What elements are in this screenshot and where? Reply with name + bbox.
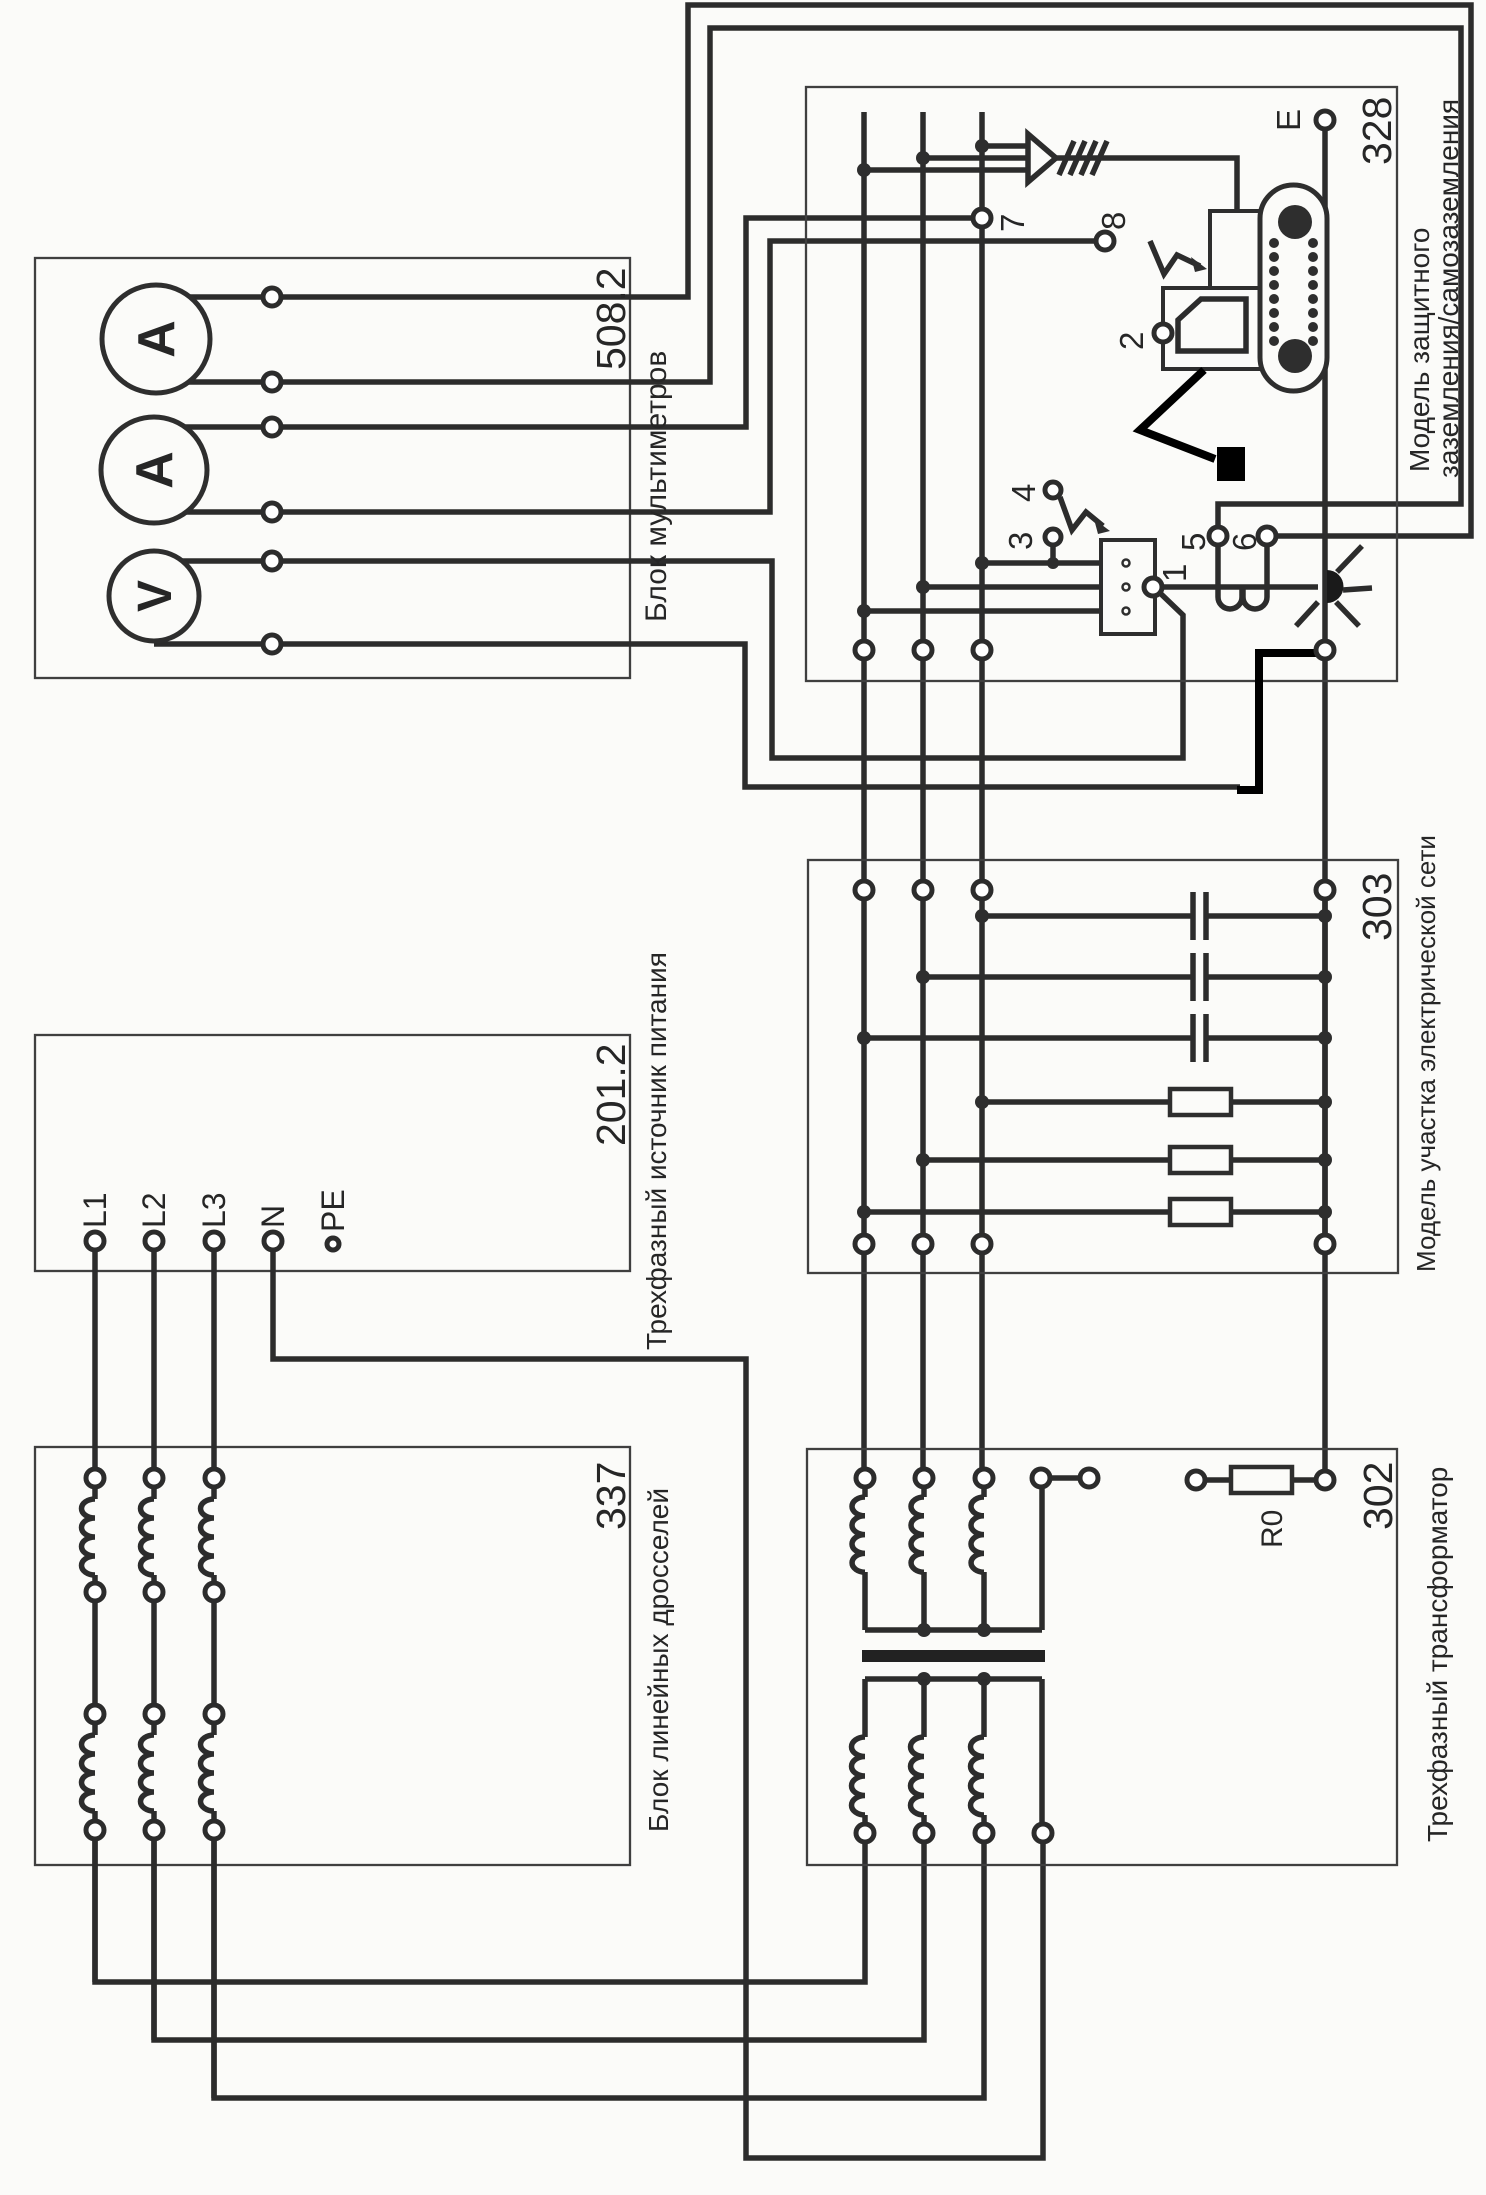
- svg-text:A: A: [126, 451, 184, 489]
- terminal A1-: [263, 373, 281, 391]
- choke terminals column L3: [205, 1469, 223, 1839]
- svg-text:N: N: [255, 1205, 291, 1228]
- wire from earth symbol to machine frame: [1056, 158, 1237, 211]
- terminal 1: [1144, 578, 1162, 596]
- wire phase b between blocks 328 303 302: [920, 650, 926, 1478]
- secondary winding c: [971, 1679, 984, 1833]
- label L1: [77, 1192, 113, 1228]
- terminals secondary bottom: [856, 1824, 1052, 1842]
- caption network section model: [1411, 835, 1441, 1272]
- wire earth bus E down right side: [1322, 129, 1328, 1471]
- svg-text:заземления/самозаземления: заземления/самозаземления: [1433, 99, 1464, 478]
- junction dots on phases for switch rows: [857, 556, 989, 618]
- terminal L2 source: [145, 1232, 163, 1250]
- black marker jumper V- to earth terminal: [1237, 653, 1316, 790]
- wire terminal 3 stub to line: [1050, 545, 1056, 563]
- machine housing lower box: [1163, 288, 1262, 369]
- label L3: [196, 1192, 232, 1228]
- caption three-phase power source: [641, 952, 672, 1350]
- svg-text:Блок мультиметров: Блок мультиметров: [640, 351, 673, 622]
- wire A1+ to terminal 6 outer frame loop: [272, 5, 1471, 536]
- inductor L2b: [141, 1735, 155, 1811]
- caption protective earthing model line 2: [1433, 99, 1464, 478]
- lightning arrow from terminal 4 to switch: [1060, 497, 1110, 534]
- lightning arrow from terminal 8 to machine: [1150, 241, 1207, 274]
- label 201.2: [588, 1043, 634, 1146]
- person touching machine thick zigzag: [1140, 370, 1215, 459]
- svg-text:5: 5: [1175, 533, 1212, 551]
- wire phase b inside 328: [920, 112, 926, 650]
- wire V- toward earth terminal: [272, 644, 1240, 787]
- wire phase a inside 303: [861, 890, 867, 1244]
- block 302 three-phase transformer border: [807, 1449, 1397, 1865]
- caption three-phase transformer: [1422, 1467, 1453, 1842]
- inductor L1a: [82, 1499, 96, 1575]
- block 303 network section model border: [808, 860, 1398, 1273]
- label terminal 8: [1095, 212, 1132, 230]
- label PE: [315, 1189, 351, 1232]
- label terminal 5: [1175, 533, 1212, 551]
- machine housing upper box: [1210, 211, 1262, 288]
- wire phase c inside 303: [979, 890, 985, 1244]
- svg-text:6: 6: [1226, 533, 1263, 551]
- secondary star bus: [865, 1672, 1042, 1686]
- wire L2 from chokes to transformer: [154, 1830, 924, 2040]
- choke terminals column L1: [86, 1469, 104, 1839]
- terminal 8: [1096, 232, 1114, 250]
- svg-text:7: 7: [994, 214, 1031, 232]
- label R0: [1256, 1510, 1289, 1548]
- resistor R3 branch: [857, 1199, 1332, 1225]
- capacitor C2 branch: [916, 953, 1332, 1001]
- switch box: [1101, 540, 1155, 634]
- svg-text:2: 2: [1113, 332, 1150, 350]
- terminal E top: [1316, 111, 1334, 129]
- terminal phase a bottom of 328: [855, 641, 873, 659]
- svg-text:303: 303: [1354, 873, 1400, 941]
- label N: [255, 1205, 291, 1228]
- svg-text:Блок линейных дросселей: Блок линейных дросселей: [643, 1488, 674, 1832]
- svg-text:L1: L1: [77, 1192, 113, 1228]
- terminal earth at block bottom: [1316, 641, 1334, 659]
- label terminal 1: [1156, 564, 1193, 582]
- label L2: [136, 1192, 172, 1228]
- caption line chokes block: [643, 1488, 674, 1832]
- capacitor C1 branch: [975, 892, 1332, 940]
- block 508.2 multimeter block border: [35, 258, 630, 678]
- wire phase a inside 328: [861, 112, 867, 650]
- wire L3 choke chain: [211, 1241, 217, 2098]
- removable link double loop: [1218, 587, 1267, 609]
- svg-text:L3: L3: [196, 1192, 232, 1228]
- wire switch input row 2: [923, 584, 1121, 590]
- terminal A2+: [263, 418, 281, 436]
- motor board big contacts: [1278, 205, 1312, 373]
- switch pins: [1123, 560, 1130, 615]
- resistor R1 branch: [975, 1089, 1332, 1115]
- wire ammeter A1 leads: [156, 297, 272, 382]
- ammeter A2: [101, 417, 207, 523]
- inductor L1b: [82, 1735, 96, 1811]
- wire L2 choke chain: [151, 1241, 157, 2040]
- terminal phase c bottom of 328: [973, 641, 991, 659]
- earth hatch strokes: [1059, 141, 1107, 175]
- removable link on star point: [1032, 1469, 1098, 1487]
- wire L1 choke chain: [92, 1241, 98, 1982]
- earth electrode triangle: [1028, 134, 1056, 182]
- capacitor C3 branch: [857, 1014, 1332, 1062]
- label terminal 4: [1005, 484, 1042, 502]
- svg-text:337: 337: [588, 1462, 634, 1530]
- wire phase a between blocks 328 303 302: [861, 650, 867, 1478]
- label terminal 7: [994, 214, 1031, 232]
- terminal 7 on phase c: [973, 209, 991, 227]
- wire A1- to terminal 5 inner frame loop: [272, 28, 1461, 528]
- wire A2- to terminal 8: [272, 241, 1096, 512]
- fault point black square: [1217, 447, 1245, 481]
- terminal L3 source: [205, 1232, 223, 1250]
- label 303: [1354, 873, 1400, 941]
- terminal A1+: [263, 288, 281, 306]
- primary winding a: [852, 1478, 865, 1630]
- label terminal 6: [1226, 533, 1263, 551]
- svg-text:328: 328: [1354, 97, 1400, 165]
- svg-text:R0: R0: [1256, 1510, 1289, 1548]
- svg-text:Модель участка электрической с: Модель участка электрической сети: [1411, 835, 1441, 1272]
- inductor L3b: [201, 1735, 215, 1811]
- caption protective earthing model line 1: [1404, 228, 1435, 472]
- terminal V+: [263, 552, 281, 570]
- wire earth bus inside 303: [1322, 890, 1328, 1244]
- motor board pin dots right column: [1308, 238, 1318, 346]
- terminals bottom of 303: [855, 1235, 1334, 1253]
- voltmeter V: [109, 551, 199, 641]
- svg-text:E: E: [1270, 109, 1307, 131]
- wire voltmeter V leads: [154, 561, 272, 644]
- junction dots on phases for PEN bundle: [857, 139, 989, 177]
- svg-text:Трехфазный источник питания: Трехфазный источник питания: [641, 952, 672, 1350]
- wire phase c between blocks 328 303 302: [979, 650, 985, 1478]
- terminal 6: [1258, 527, 1276, 545]
- svg-text:8: 8: [1095, 212, 1132, 230]
- svg-text:4: 4: [1005, 484, 1042, 502]
- secondary winding b: [911, 1679, 925, 1833]
- ammeter A1: [102, 285, 210, 393]
- svg-text:PE: PE: [315, 1189, 351, 1232]
- svg-text:Трехфазный трансформатор: Трехфазный трансформатор: [1422, 1467, 1453, 1842]
- wire L3 from chokes to transformer: [214, 1830, 984, 2098]
- wire A2+ to terminal 7: [272, 218, 973, 427]
- svg-text:1: 1: [1156, 564, 1193, 582]
- secondary neutral lead: [1039, 1679, 1045, 1833]
- svg-text:Модель защитного: Модель защитного: [1404, 228, 1435, 472]
- terminal phase b bottom of 328: [914, 641, 932, 659]
- secondary winding a: [852, 1679, 866, 1833]
- primary star bus: [865, 1623, 1042, 1637]
- wire star point to link terminal: [1039, 1478, 1045, 1630]
- resistor R2 branch: [916, 1147, 1332, 1173]
- wire PEN bundle three lines to earth symbol: [864, 146, 1028, 170]
- caption multimeter block: [640, 351, 673, 622]
- inductor L2a: [141, 1499, 155, 1575]
- terminal 4: [1045, 482, 1061, 498]
- terminal PE source: [327, 1238, 339, 1250]
- junction dot terminal 3: [1047, 557, 1059, 569]
- svg-text:3: 3: [1002, 532, 1039, 550]
- wire V+ to terminal 1: [272, 561, 1183, 758]
- primary winding b: [911, 1478, 924, 1630]
- inductor L3a: [201, 1499, 215, 1575]
- label 337: [588, 1462, 634, 1530]
- terminals top of 303: [855, 881, 1334, 899]
- resistor R0: [1187, 1467, 1334, 1493]
- terminals primary top: [856, 1469, 993, 1487]
- svg-text:V: V: [129, 580, 182, 612]
- terminal 5: [1209, 527, 1227, 545]
- motor terminal board stadium: [1260, 185, 1327, 391]
- label terminal 2: [1113, 332, 1150, 350]
- wire ammeter A2 leads: [154, 427, 272, 512]
- block 328 protective earthing model border: [806, 87, 1397, 681]
- label terminal 3: [1002, 532, 1039, 550]
- label terminal E: [1270, 109, 1307, 131]
- svg-text:A: A: [128, 320, 186, 358]
- wire L1 from chokes to transformer: [95, 1830, 865, 1982]
- wire N neutral from source to transformer: [273, 1241, 1043, 2158]
- terminal 2 on machine housing: [1154, 324, 1172, 342]
- removable link stubs terminals 5 6: [1218, 545, 1267, 587]
- terminal L1 source: [86, 1232, 104, 1250]
- choke terminals column L2: [145, 1469, 163, 1839]
- terminal 3: [1045, 529, 1061, 545]
- motor board pin dots left column: [1269, 238, 1279, 346]
- wire phase c inside 328: [979, 112, 985, 650]
- wire terminal 1 to earth bus fault: [1160, 584, 1318, 590]
- label 508.2: [588, 267, 634, 370]
- terminal A2-: [263, 503, 281, 521]
- wire switch input row 1: [982, 560, 1121, 566]
- label 302: [1355, 1462, 1401, 1530]
- label 328: [1354, 97, 1400, 165]
- terminal N source: [264, 1232, 282, 1250]
- wire phase b inside 303: [920, 890, 926, 1244]
- transformer core bar: [862, 1650, 1045, 1662]
- svg-text:508.2: 508.2: [588, 267, 634, 370]
- block 201.2 three-phase source border: [35, 1035, 630, 1271]
- terminal V-: [263, 635, 281, 653]
- block 337 line chokes border: [35, 1447, 630, 1865]
- svg-text:302: 302: [1355, 1462, 1401, 1530]
- svg-text:201.2: 201.2: [588, 1043, 634, 1146]
- machine silhouette polygon: [1178, 299, 1246, 351]
- primary winding c: [971, 1478, 984, 1630]
- svg-text:L2: L2: [136, 1192, 172, 1228]
- spark symbol at fault point: [1296, 546, 1372, 626]
- wire switch input row 3: [864, 608, 1121, 614]
